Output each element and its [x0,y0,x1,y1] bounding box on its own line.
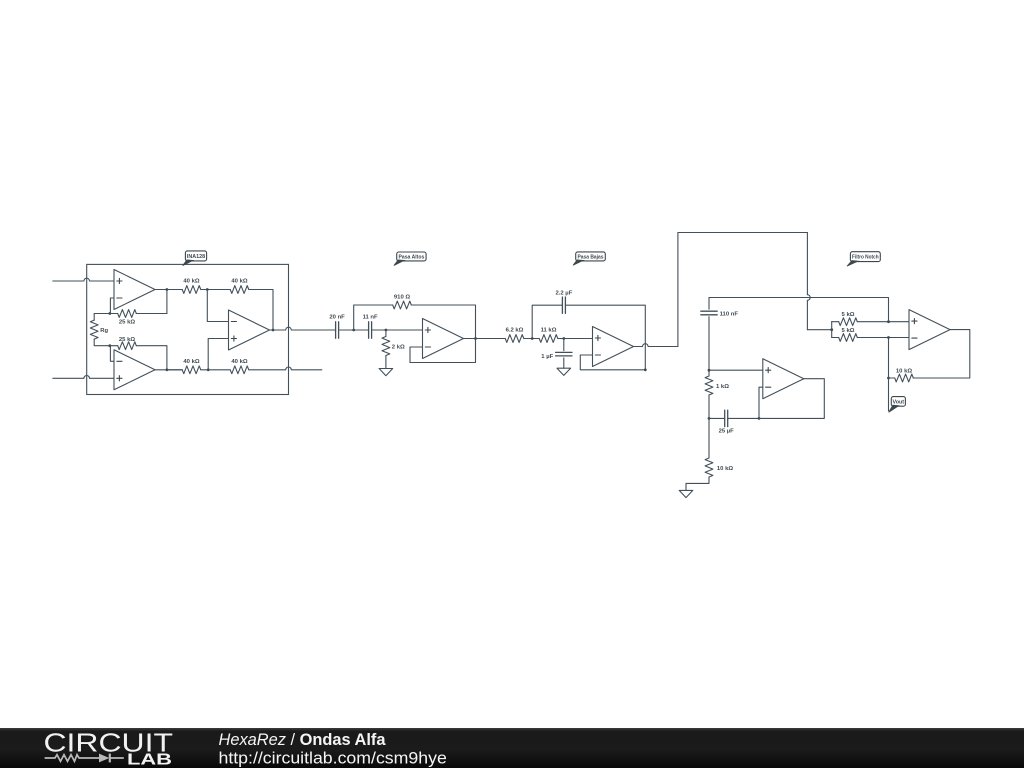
node A1 out junction [166,288,169,291]
svg-text:HexaRez / Ondas Alfa: HexaRez / Ondas Alfa [219,731,387,749]
resistor Rg [90,320,98,339]
ground HP [379,369,393,376]
wire 1µF to ground [563,358,565,368]
flag INA128 [185,251,206,261]
node bottom mid junction [207,368,210,371]
resistor 25 kΩ (bottom feedback) [118,342,137,350]
op-amp A3 (INA128 output amp) [229,310,270,350]
resistor 10 kΩ (feedback) [895,374,914,382]
flag Filtro Notch [850,252,880,262]
svg-text:Rg: Rg [100,328,108,334]
capacitor 11 nF [368,322,370,338]
flag Vout [891,397,905,407]
node HP2 junction [385,329,388,332]
svg-text:910 Ω: 910 Ω [394,294,410,300]
resistor 40 kΩ (top row first) [182,286,201,294]
svg-text:25 kΩ: 25 kΩ [119,337,135,343]
op-amp A1 (INA128 top input amp) [114,270,155,310]
wire bottom row left [167,369,182,371]
wire 110nF top lead [708,298,710,310]
wire Rg top [94,314,110,321]
svg-text:10 kΩ: 10 kΩ [717,466,733,472]
node Rg top junction [108,312,111,315]
wire top feedback to A3 out [249,290,273,331]
wire 25µF right lead [728,417,759,419]
wire N1 output feedback [759,379,824,419]
wire 5k1 right lead [857,321,909,323]
wire U3 output (hops feedback) [634,344,678,347]
resistor 5 kΩ (upper) [839,318,858,326]
wire notch rail [709,298,889,322]
node notch plus junction [887,320,890,323]
resistor 25 kΩ (top feedback) [118,310,137,318]
ground LP [557,368,571,375]
node 5k bar junction [830,328,833,331]
resistor 40 kΩ (bottom row second) [230,366,249,374]
wire A3 noninverting [208,339,228,370]
wire 910 to out [411,305,475,339]
svg-text:10 kΩ: 10 kΩ [896,368,912,374]
svg-text:Vout: Vout [893,400,905,406]
wire 1k bottom lead [708,395,710,418]
wire 25k top left lead [110,313,118,315]
wire notch input to 5k bar [807,329,831,331]
wire 6.2k to node [524,338,539,340]
wire 5k input bar [831,322,833,338]
wire 5k2 right lead [857,337,909,339]
wire 2k top lead [385,330,387,337]
node LP2 junction [562,337,565,340]
capacitor 110 nF [701,310,717,312]
node Vout junction [887,377,890,380]
flag Pasa Bajas [576,252,606,261]
wire 110nF to node [708,317,710,371]
node N1 fb junction [758,417,761,420]
op-amp A2 (INA128 bottom input amp) [114,350,155,390]
wire A1 inverting loop [110,298,114,314]
wire A1 feedback down [166,290,168,314]
wire 20nF to node [339,329,369,331]
wire U2 inverting loop [410,339,476,363]
wire A3 output to stage 2 [270,327,336,330]
resistor 10 kΩ (to ground) [705,458,713,477]
wire 25k bottom right lead [136,346,167,370]
resistor 5 kΩ (lower) [839,334,858,342]
resistor 1 kΩ [705,376,713,395]
wire 2k to ground [385,356,387,369]
wire A2 output [155,369,182,371]
node HP1 junction [352,329,355,332]
wire 5k1 left lead [832,321,839,323]
svg-text:5 kΩ: 5 kΩ [842,312,855,318]
svg-text:40 kΩ: 40 kΩ [183,359,199,365]
node notch minus junction [887,336,890,339]
INA128 package boundary box [87,264,289,394]
node LP1 junction [531,337,534,340]
svg-text:Pasa Altos: Pasa Altos [399,254,425,260]
wire 1µF top lead [563,339,565,351]
wire LP feedback up [532,305,562,338]
resistor 40 kΩ (top row second) [230,286,249,294]
wire A1 output [155,289,182,291]
svg-text:110 nF: 110 nF [720,311,739,317]
svg-text:25 kΩ: 25 kΩ [119,319,135,325]
node A2 out junction [166,368,169,371]
wire U3 inverting loop [580,355,645,370]
flag Pasa Altos [397,252,426,261]
wire Rg bottom [94,339,110,346]
wire U2 output [464,338,506,340]
svg-text:25 µF: 25 µF [719,428,735,434]
svg-text:40 kΩ: 40 kΩ [231,279,247,285]
wire 10k vert top lead [708,418,710,458]
svg-text:5 kΩ: 5 kΩ [842,328,855,334]
svg-text:6.2 kΩ: 6.2 kΩ [506,328,524,334]
svg-text:INA128: INA128 [187,254,205,260]
resistor 11 kΩ [539,335,558,343]
capacitor 25 µF [724,410,726,426]
wire 1k top lead [708,370,710,376]
node notch mid junction [708,369,711,372]
wire HP feedback up [354,305,393,330]
wire 11nF to opamp [372,329,423,331]
svg-text:11 nF: 11 nF [363,315,378,321]
node U2 out junction [474,337,477,340]
wire to N1 noninverting [709,369,763,371]
logo resistor-diode artwork [45,755,124,762]
wire minus node down [888,338,890,411]
op-amp N1 (notch buffer) [763,359,804,399]
svg-text:LAB: LAB [127,752,172,768]
resistor 2 kΩ [382,337,390,356]
wire reference out (crosses box edge) [249,367,322,370]
wire LP out up to notch rail [678,233,808,347]
op-amp U2 (Pasa Altos) [423,319,464,359]
capacitor 1 µF [556,351,572,353]
wire 10k to ground [686,477,709,490]
capacitor 20 nF [335,322,337,338]
wire 5k2 left lead [832,337,839,339]
wire top row mid [201,289,230,291]
svg-text:Filtro Notch: Filtro Notch [852,255,879,261]
wire 10k fb to minus node [889,377,895,379]
wire input In+ (top) [53,278,114,281]
svg-text:40 kΩ: 40 kΩ [183,279,199,285]
ground notch [679,490,693,497]
resistor 40 kΩ (bottom row first) [182,366,201,374]
wire A2 inverting loop [110,346,114,362]
svg-text:Pasa Bajas: Pasa Bajas [578,254,604,260]
wire 25k top right lead [136,313,167,315]
wire input In- (bottom) [53,376,114,379]
wire N1 inverting loop [759,387,763,418]
svg-text:2.2 µF: 2.2 µF [555,291,572,297]
node LP feedback junction [644,368,647,371]
node Rg bottom junction [108,344,111,347]
wire 2.2µF feedback down [565,305,645,370]
node top mid junction [206,288,209,291]
svg-text:http://circuitlab.com/csm9hye: http://circuitlab.com/csm9hye [219,748,447,767]
op-amp U3 (Pasa Bajas) [593,327,634,367]
op-amp N2 (notch output) [909,310,950,350]
node A3 out junction [272,329,275,332]
svg-text:1 µF: 1 µF [541,354,553,360]
svg-text:20 nF: 20 nF [329,315,345,321]
wire 25µF left lead [709,417,725,419]
wire notch input down (hops rail) [807,233,810,330]
svg-text:2 kΩ: 2 kΩ [392,344,405,350]
svg-text:11 kΩ: 11 kΩ [541,328,557,334]
node notch low junction [708,417,711,420]
svg-text:1 kΩ: 1 kΩ [716,384,729,390]
wire 11k to opamp [558,338,593,340]
resistor 6.2 kΩ [505,335,524,343]
wire 25k bottom left lead [110,345,118,347]
wire N2 output [913,330,970,378]
resistor 910 Ω [393,301,412,309]
svg-text:40 kΩ: 40 kΩ [231,359,247,365]
wire bottom row mid [201,369,230,371]
wire to A3 inverting [207,290,228,322]
capacitor 2.2 µF [561,297,563,313]
